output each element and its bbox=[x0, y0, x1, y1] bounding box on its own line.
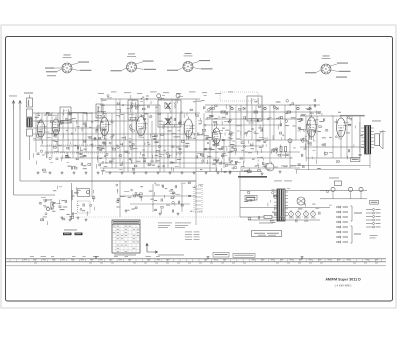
svg-text:AM/FM Super 3011 D: AM/FM Super 3011 D bbox=[325, 278, 361, 282]
svg-text:( 4 KW 406 ): ( 4 KW 406 ) bbox=[335, 284, 352, 288]
